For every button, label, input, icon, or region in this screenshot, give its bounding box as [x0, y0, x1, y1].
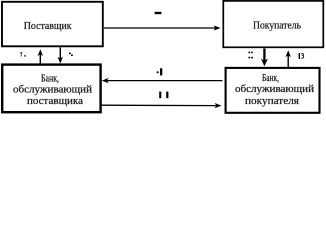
arrow up from left bank to Поставщик: [38, 49, 43, 64]
box Банк, обслуживающий покупателя: [226, 68, 320, 113]
svg-text:Поставщик: Поставщик: [24, 21, 73, 32]
arrow down from Поставщик to left bank: [58, 47, 63, 63]
svg-text:обслуживающий: обслуживающий: [235, 84, 315, 95]
svg-text:поставщика: поставщика: [27, 96, 83, 107]
label 4 (dot and bar): [157, 68, 163, 75]
svg-text:Банк,: Банк,: [262, 73, 279, 84]
svg-text:Покупатель: Покупатель: [253, 21, 301, 32]
arrow left from right bank to left bank: [102, 78, 223, 83]
label dash above top arrow: [155, 12, 162, 14]
label 7.: [20, 52, 26, 56]
box Поставщик: [2, 2, 103, 47]
svg-text:Банк,: Банк,: [41, 74, 59, 85]
arrow right from left bank to right bank: [102, 103, 222, 108]
arrow down (bold) from Покупатель to right bank: [261, 48, 268, 66]
box Покупатель: [223, 1, 323, 47]
box Банк, обслуживающий поставщика: [2, 65, 100, 113]
svg-text:покупателя: покупателя: [245, 96, 299, 107]
label 13: [299, 53, 304, 59]
label colon dots (left of bold down arrow): [248, 51, 253, 58]
arrow Поставщик to Покупатель: [104, 25, 221, 30]
svg-text:обслуживающий: обслуживающий: [13, 85, 93, 96]
label 11 (two bars): [159, 92, 168, 99]
arrow up from right bank to Покупатель: [286, 50, 291, 67]
label 8: [69, 52, 73, 56]
